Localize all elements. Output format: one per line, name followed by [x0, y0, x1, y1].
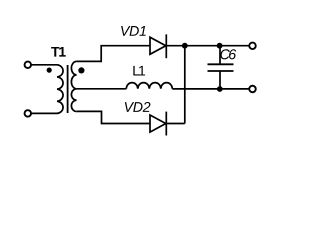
polarity dot primary: [47, 68, 52, 73]
node A junction dot: [182, 43, 188, 49]
wire secondary top tap to VD1 anode: [77, 46, 150, 62]
inductor L1: [126, 83, 172, 89]
polarity dot secondary: [78, 67, 84, 73]
capacitor C6: [219, 46, 221, 64]
wire VD1 cathode to node A: [166, 45, 185, 47]
transformer core: [67, 65, 69, 113]
junction dot C6 bottom: [217, 86, 223, 92]
wire input bottom: [31, 112, 57, 114]
transformer T1 secondary winding bottom half: [71, 89, 76, 112]
wire bottom rail L1 to output: [172, 88, 249, 90]
transformer T1 label: [51, 47, 66, 57]
junction dot C6 top: [217, 43, 223, 49]
wire top rail to output terminal: [220, 45, 250, 47]
wire secondary bottom tap to VD2 anode: [77, 111, 150, 123]
terminal (output bottom): [249, 86, 256, 93]
diode VD2 label: [125, 102, 151, 112]
terminal (output top): [249, 43, 256, 50]
wire center tap to L1: [77, 88, 127, 90]
transformer T1 secondary winding top half: [71, 61, 76, 88]
diode VD1: [150, 37, 166, 54]
inductor L1 label: [133, 66, 145, 76]
terminal (input bottom): [25, 110, 32, 117]
diode VD1 label: [121, 26, 146, 36]
wire link VD1-VD2 vertical: [184, 46, 186, 124]
wire top rail to C6 node: [185, 45, 220, 47]
diode VD2: [150, 115, 166, 132]
capacitor C6 label: [220, 49, 236, 59]
terminal (input top): [25, 62, 32, 69]
transformer T1 primary winding: [57, 65, 63, 114]
wire input top: [31, 64, 57, 66]
wire VD2 cathode to link: [166, 123, 185, 125]
